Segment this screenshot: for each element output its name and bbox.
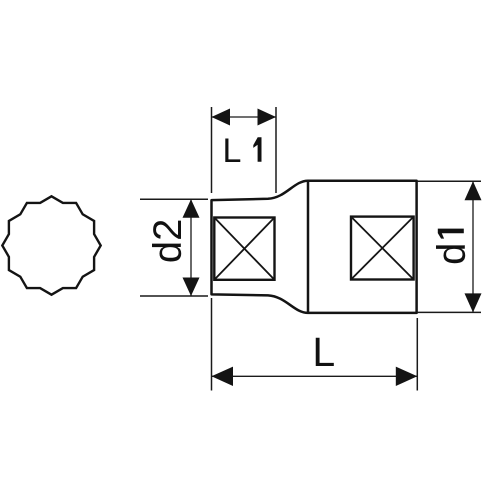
drive square diagonal 2 [214,218,274,280]
d2 extension line top [140,198,208,200]
svg-text:L: L [223,132,242,170]
L arrow right [396,367,418,386]
d1 arrow up [465,181,482,200]
d1 dimension line [472,181,474,312]
L1 arrow left [212,109,231,126]
L1 arrow right [258,109,277,126]
L1 extension line left [211,107,213,193]
d2 dimension line [190,199,192,296]
label d1: digit 1 glyph (local frame) [438,229,464,239]
label d1 [430,229,474,265]
body square diagonal 2 [351,217,414,280]
L arrow left [212,367,234,386]
d1 extension line top [417,180,481,182]
label L 1: digit 1 glyph [253,137,261,162]
svg-text:d: d [430,243,474,265]
d1 arrow down [465,293,482,312]
socket body outline [212,181,417,313]
body square diagonal 1 [351,217,414,280]
svg-text:d2: d2 [146,219,190,264]
drive square diagonal 1 [214,218,274,280]
d2 arrow up [183,199,200,218]
12-point socket profile polygon [2,196,100,294]
L dimension line [212,375,418,377]
drive square [214,218,274,280]
d2 arrow down [183,278,200,297]
d1 extension line bottom [417,311,481,313]
body left edge line [307,181,310,313]
L1 dimension line [212,116,277,118]
L1 extension line right [275,107,277,193]
L extension line right [416,318,418,391]
d2 extension line bottom [140,295,208,297]
svg-text:L: L [312,329,335,375]
L extension line left [211,298,213,391]
body square [351,217,414,280]
